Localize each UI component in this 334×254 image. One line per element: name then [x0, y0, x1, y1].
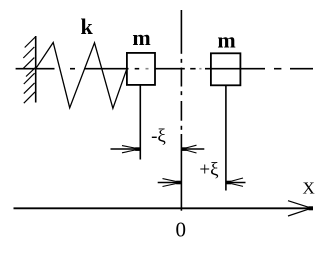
arrow left-pointing at x=181.4: [182, 145, 197, 153]
svg-text:X: X: [303, 178, 315, 197]
arrow right-pointing at x=181.4: [163, 179, 182, 187]
svg-text:-ξ: -ξ: [151, 126, 166, 147]
wire horizontal centerline (dash-dot): [16, 68, 313, 70]
dimension line +xi (leaders): [158, 182, 182, 184]
X axis arrowhead: [288, 201, 312, 216]
extension line from m1: [139, 85, 141, 160]
spring k: [36, 43, 127, 109]
mass box m1: [127, 53, 155, 85]
svg-text:0: 0: [175, 218, 186, 242]
svg-text:m: m: [217, 28, 235, 53]
X axis: [14, 207, 312, 209]
dimension line -xi (leaders): [111, 148, 141, 150]
arrow left-pointing at x=225.9: [227, 178, 244, 186]
svg-text:m: m: [132, 25, 150, 50]
wall: [35, 36, 37, 103]
mass box m2: [211, 53, 241, 85]
svg-text:+ξ: +ξ: [199, 160, 219, 181]
extension line from m2: [225, 85, 227, 190]
vertical dash-dot origin line: [180, 10, 182, 211]
svg-text:k: k: [80, 14, 93, 39]
arrow right-pointing at x=140.3: [122, 146, 140, 153]
wall hatching: [23, 37, 36, 103]
